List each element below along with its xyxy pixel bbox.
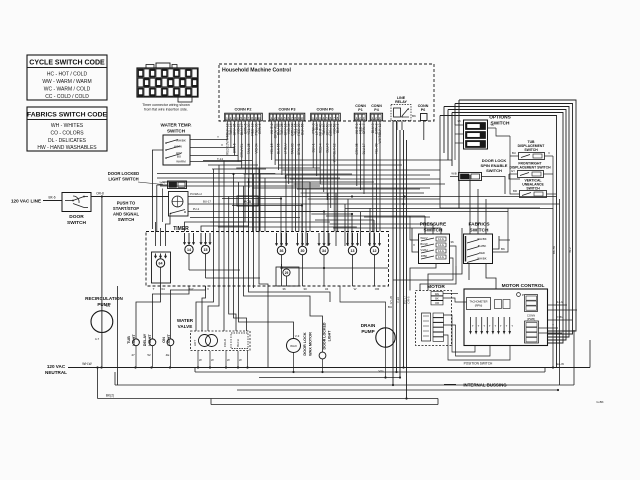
svg-text:G-BK: G-BK [596, 400, 603, 404]
svg-text:BU/BK: BU/BK [478, 244, 487, 248]
svg-text:SWITCH: SWITCH [524, 148, 538, 152]
svg-text:36: 36 [457, 119, 461, 123]
svg-text:WH-W: WH-W [82, 362, 91, 366]
svg-text:TUB: TUB [127, 336, 131, 344]
svg-text:PCB: PCB [244, 200, 252, 204]
timer contact 15 [201, 245, 209, 253]
svg-text:120 VAC LINE: 120 VAC LINE [11, 199, 41, 204]
svg-text:MOTOR: MOTOR [427, 284, 445, 290]
svg-text:2: 2 [274, 116, 276, 120]
svg-text:WARM: WARM [176, 160, 186, 164]
svg-text:9: 9 [255, 116, 257, 120]
timer contact 29 subbox [276, 267, 299, 286]
water temp switch S4 [163, 135, 190, 165]
wire CONN P6 drop [423, 121, 425, 141]
tub displacement switch S6 [519, 153, 545, 160]
svg-text:3: 3 [379, 116, 381, 120]
svg-text:10: 10 [258, 116, 262, 120]
wire bus 398 [98, 398, 439, 400]
svg-text:1: 1 [356, 116, 358, 120]
svg-text:T: T [500, 325, 502, 328]
svg-text:Y-BU: Y-BU [557, 315, 563, 319]
svg-text:TACHOMETER: TACHOMETER [470, 300, 488, 304]
svg-text:PU/WH-2: PU/WH-2 [190, 192, 202, 196]
svg-text:BU/W: BU/W [420, 242, 428, 246]
wire push start right 1 [188, 196, 352, 198]
svg-text:W: W [227, 358, 230, 362]
svg-text:OR: OR [375, 287, 380, 291]
svg-text:29: 29 [285, 271, 289, 275]
svg-text:SWITCH: SWITCH [167, 129, 186, 134]
svg-text:V: V [221, 143, 223, 147]
svg-text:30: 30 [301, 249, 305, 253]
wire neutral bus [68, 367, 590, 369]
svg-text:CONN P3: CONN P3 [279, 108, 296, 112]
wires middle mesh horizontals [236, 167, 320, 169]
svg-text:W/B: W/B [451, 172, 456, 176]
svg-text:4E: 4E [166, 353, 170, 357]
wires motor to motor control [443, 293, 458, 295]
svg-text:AND SIGNAL: AND SIGNAL [113, 212, 139, 217]
svg-text:V-22: V-22 [396, 297, 400, 304]
wire bus right vertical 545 [544, 368, 546, 373]
wire water temp out 4 [190, 161, 242, 163]
fabrics switch code legend box [27, 107, 107, 151]
timer dashed box [146, 232, 389, 287]
wire bus right vertical 438 [437, 399, 439, 405]
svg-text:(RPM): (RPM) [475, 304, 483, 308]
svg-text:T: T [472, 325, 474, 328]
svg-text:P4: P4 [374, 108, 378, 112]
wires options switch right [488, 127, 497, 129]
fabrics switch S11 [464, 234, 493, 264]
svg-text:BU: BU [177, 155, 181, 159]
svg-text:W: W [239, 358, 242, 362]
svg-text:BU: BU [388, 305, 392, 309]
svg-text:CO - COLORS: CO - COLORS [50, 131, 84, 137]
svg-text:DOOR: DOOR [69, 214, 84, 220]
svg-text:RED-13: RED-13 [226, 143, 230, 155]
svg-text:T: T [489, 325, 491, 328]
timer contact 29 [283, 269, 290, 276]
svg-text:10: 10 [300, 116, 304, 120]
vertical unbalance switch S8 [520, 191, 547, 198]
svg-text:NA-W: NA-W [556, 362, 564, 366]
svg-text:OR-8: OR-8 [96, 192, 104, 196]
recirculation pump M1 [91, 311, 113, 333]
svg-text:RED: RED [479, 251, 485, 255]
tub light DS1 [135, 308, 137, 339]
svg-text:WW - WARM / WARM: WW - WARM / WARM [42, 79, 91, 85]
wires pressure switch right [450, 246, 457, 266]
svg-text:14-G: 14-G [438, 249, 444, 253]
svg-text:8: 8 [251, 116, 253, 120]
svg-text:WH: WH [435, 292, 439, 296]
wire 120VAC to door switch [43, 200, 62, 202]
wire water temp left drop [152, 150, 163, 229]
svg-text:4: 4 [323, 116, 325, 120]
svg-text:WH/BK: WH/BK [477, 257, 486, 261]
svg-text:HC - HOT / COLD: HC - HOT / COLD [47, 72, 88, 78]
wire water temp out 1 [190, 139, 227, 141]
svg-text:PUSH TO: PUSH TO [117, 201, 136, 206]
svg-text:15: 15 [204, 248, 208, 252]
water valve V1 [191, 331, 251, 351]
wire bus 377 [259, 377, 400, 379]
svg-text:4: 4 [237, 116, 239, 120]
options switch S5 [464, 120, 488, 149]
svg-text:V: V [207, 287, 209, 291]
svg-text:OR-5: OR-5 [407, 296, 411, 303]
svg-text:3: 3 [319, 116, 321, 120]
svg-text:1: 1 [372, 116, 374, 120]
svg-text:BLCH: BLCH [236, 339, 240, 346]
svg-text:CYCLE SWITCH CODE: CYCLE SWITCH CODE [29, 60, 105, 67]
drain pump M3 [376, 328, 395, 347]
svg-text:2: 2 [375, 116, 377, 120]
svg-text:T: T [495, 325, 497, 328]
svg-text:BK-6: BK-6 [48, 196, 55, 200]
timer contact 64 [156, 259, 164, 267]
svg-text:HOT: HOT [193, 340, 197, 347]
wire left vertical 156 [156, 185, 158, 232]
svg-text:DOOR LOCK: DOOR LOCK [303, 332, 307, 355]
svg-text:BR: BR [513, 189, 517, 193]
timer contact 36 [277, 246, 285, 254]
wires motor control right [539, 327, 559, 329]
svg-text:MOTOR CONTROL: MOTOR CONTROL [502, 283, 545, 289]
wires pressure switch left [410, 216, 419, 240]
svg-text:8: 8 [337, 116, 339, 120]
svg-text:36: 36 [280, 249, 284, 253]
wire bus right vertical 574 [573, 330, 575, 385]
svg-text:W: W [211, 358, 214, 362]
svg-text:3: 3 [363, 116, 365, 120]
wire water temp out 3 [190, 155, 238, 157]
svg-text:RELAY: RELAY [395, 100, 407, 104]
svg-text:Household Machine Control: Household Machine Control [222, 68, 291, 74]
svg-text:34: 34 [322, 249, 326, 253]
svg-text:PU-2: PU-2 [193, 207, 200, 211]
wire door switch out OR-B [91, 196, 169, 198]
svg-text:P: P [522, 293, 524, 297]
svg-text:from flat wire insertion side.: from flat wire insertion side. [144, 108, 188, 112]
svg-text:4: 4 [281, 116, 283, 120]
svg-text:T: T [506, 325, 508, 328]
svg-text:BU-17: BU-17 [203, 200, 211, 204]
svg-text:V-3: V-3 [295, 334, 300, 338]
svg-text:7: 7 [291, 116, 293, 120]
svg-text:W: W [199, 358, 202, 362]
svg-text:WATER: WATER [177, 318, 194, 323]
cycle switch code legend box [27, 55, 107, 100]
timer contact 34 [320, 246, 328, 254]
svg-text:6: 6 [244, 116, 246, 120]
wires displacement loop [510, 136, 511, 194]
wires options switch left [455, 124, 464, 126]
internal bussing legend [444, 384, 456, 386]
svg-text:5: 5 [284, 116, 286, 120]
pressure switch S10 [419, 234, 450, 264]
svg-text:P1: P1 [358, 108, 362, 112]
svg-text:T: T [478, 325, 480, 328]
svg-text:COLD: COLD [223, 338, 227, 347]
svg-text:52: 52 [147, 353, 151, 357]
svg-text:PRESSURE: PRESSURE [420, 222, 447, 228]
svg-text:14: 14 [187, 248, 191, 252]
svg-text:WH/BK: WH/BK [176, 139, 186, 143]
svg-text:120 VAC: 120 VAC [47, 364, 66, 369]
svg-text:T: T [483, 325, 485, 328]
wire push start right 3 [188, 211, 508, 213]
svg-text:2: 2 [359, 116, 361, 120]
svg-text:GY: GY [511, 169, 515, 173]
wire bus left vertical 98 [97, 368, 99, 399]
svg-text:BK(2): BK(2) [106, 394, 114, 398]
push to start switch S3 [169, 192, 189, 217]
wire drain pump feed [340, 286, 386, 310]
svg-text:DL - DELICATES: DL - DELICATES [48, 138, 87, 144]
svg-text:64: 64 [161, 287, 165, 291]
svg-text:5: 5 [240, 116, 242, 120]
svg-text:START/STOP: START/STOP [113, 206, 139, 211]
svg-text:WC - WARM / COLD: WC - WARM / COLD [44, 87, 91, 93]
wires CONN P0 drops [312, 121, 314, 168]
svg-text:BK: BK [435, 296, 439, 300]
wire bus 390 [237, 389, 558, 391]
svg-text:1: 1 [312, 116, 314, 120]
svg-text:WATER TEMP.: WATER TEMP. [161, 123, 192, 128]
svg-text:FABRICS: FABRICS [468, 222, 490, 228]
svg-text:64: 64 [159, 262, 163, 266]
wire bus left vertical 115 [114, 372, 116, 385]
wire bus vertical 195 [194, 368, 196, 373]
svg-text:WH/BK: WH/BK [477, 237, 486, 241]
svg-text:NEUTRAL: NEUTRAL [45, 370, 67, 375]
svg-text:47: 47 [131, 353, 135, 357]
motor control U1 [464, 289, 548, 346]
svg-text:ON: ON [162, 337, 166, 343]
wire bus vertical 211 [210, 399, 212, 405]
timer contact 13 [348, 246, 356, 254]
wire water temp out 2 [190, 147, 235, 149]
svg-text:DOOR LOCKED: DOOR LOCKED [108, 171, 139, 176]
svg-text:OR: OR [435, 301, 439, 305]
pcb box [237, 196, 258, 206]
wire line relay drop [396, 121, 398, 130]
options area outer loop [440, 116, 540, 209]
svg-text:14-G: 14-G [557, 300, 563, 304]
front right displacement switch S7 [518, 171, 544, 178]
svg-text:P/BK: P/BK [421, 254, 428, 258]
svg-text:P6: P6 [421, 108, 425, 112]
svg-text:CC - COLD / COLD: CC - COLD / COLD [45, 94, 89, 100]
svg-text:36: 36 [450, 240, 454, 244]
timer contact 14 [185, 245, 193, 253]
svg-text:CONN P0: CONN P0 [317, 108, 334, 112]
svg-text:V: V [548, 151, 550, 155]
svg-text:SWITCH: SWITCH [118, 217, 135, 222]
svg-text:VALVE: VALVE [178, 324, 193, 329]
svg-text:36: 36 [282, 287, 286, 291]
svg-text:OPTIONS: OPTIONS [489, 115, 511, 121]
svg-text:13: 13 [351, 249, 355, 253]
svg-text:SWITCH: SWITCH [486, 168, 502, 173]
svg-text:8: 8 [294, 116, 296, 120]
wires water valve terminals [197, 351, 199, 368]
svg-text:SWITCH: SWITCH [424, 228, 443, 234]
wires fabrics switch right [493, 240, 511, 249]
door lock spin enable switch S9 [459, 173, 482, 181]
wires CONN P2 drops [226, 121, 228, 140]
svg-text:DOOR LOCKED: DOOR LOCKED [323, 322, 327, 349]
wires CONN P3 drops [271, 121, 273, 160]
svg-text:DRAIN: DRAIN [361, 323, 376, 328]
timer connector block icon [137, 68, 198, 97]
svg-text:V/WH: V/WH [420, 248, 427, 252]
on light DS3 [169, 295, 171, 339]
svg-text:34: 34 [325, 287, 329, 291]
svg-text:6-4: 6-4 [106, 304, 111, 308]
wire left vertical 162 [162, 189, 164, 223]
wire door switch down branch [101, 195, 103, 197]
wires mesh vertical drops to timer and switches [280, 199, 282, 247]
timer subbox contact 64 [152, 252, 171, 283]
wire bus 385 [115, 384, 574, 386]
svg-text:BK: BK [412, 114, 416, 118]
wires stairs to water valve [196, 169, 214, 331]
wire pump down [101, 332, 103, 367]
household machine control dashed box [219, 64, 434, 121]
svg-text:WAX: WAX [290, 344, 297, 348]
svg-text:(PWB): (PWB) [527, 317, 535, 321]
svg-text:PUMP: PUMP [361, 329, 374, 334]
wire push start right 2 [188, 203, 560, 205]
svg-text:CONN P2: CONN P2 [235, 108, 252, 112]
wires HMC to right risers [459, 100, 576, 331]
wires CONN P4 drops [372, 121, 374, 232]
svg-text:Y: Y [217, 135, 219, 139]
svg-text:SWITCH: SWITCH [526, 187, 540, 191]
svg-text:SWITCH: SWITCH [67, 220, 86, 226]
wire bus 372 [195, 371, 545, 373]
svg-text:BU: BU [512, 151, 516, 155]
svg-text:DISPLACEMENT SWITCH: DISPLACEMENT SWITCH [509, 166, 551, 170]
door lock wax motor M2 [287, 339, 301, 353]
door switch S1 [62, 193, 91, 212]
svg-text:LIGHT: LIGHT [328, 330, 332, 342]
timer contact 12 [370, 246, 378, 254]
svg-text:3: 3 [233, 116, 235, 120]
svg-text:WH: WH [160, 181, 165, 185]
wire bus right vertical 590 [589, 340, 591, 368]
wires right risers bottom [552, 208, 554, 368]
svg-text:BK: BK [501, 247, 505, 251]
timer contact 30 [298, 246, 306, 254]
svg-text:14-G: 14-G [438, 237, 444, 241]
svg-text:2: 2 [316, 116, 318, 120]
wires center risers [392, 121, 394, 385]
wires CONN P1 drops [356, 121, 358, 186]
svg-text:5: 5 [326, 116, 328, 120]
door locked light DS4 [319, 352, 326, 359]
svg-text:14-G: 14-G [438, 243, 444, 247]
svg-text:T: T [153, 287, 155, 291]
svg-text:1: 1 [226, 116, 228, 120]
wires pressure fabrics to motor area [420, 266, 456, 291]
svg-text:GY-35: GY-35 [389, 295, 393, 304]
svg-text:6: 6 [288, 116, 290, 120]
svg-text:INTERNAL BUSSING: INTERNAL BUSSING [463, 383, 507, 388]
door locked light switch S2 [168, 181, 187, 189]
timer internal bus [160, 267, 162, 286]
svg-text:WAX MOTOR: WAX MOTOR [309, 332, 313, 356]
delay light DS2 [151, 300, 153, 339]
svg-text:WH - WHITES: WH - WHITES [51, 123, 84, 129]
svg-text:1: 1 [271, 116, 273, 120]
svg-text:14-G: 14-G [438, 255, 444, 259]
svg-text:POSITION SWITCH: POSITION SWITCH [464, 362, 493, 366]
svg-text:7: 7 [248, 116, 250, 120]
svg-text:3: 3 [277, 116, 279, 120]
svg-text:7: 7 [333, 116, 335, 120]
svg-text:WH/V: WH/V [420, 236, 427, 240]
svg-text:V: V [413, 243, 415, 247]
svg-text:4-7: 4-7 [95, 337, 100, 341]
wires lights feeds [136, 286, 161, 308]
svg-text:W: W [354, 287, 357, 291]
wire bus 405 [211, 404, 438, 406]
svg-text:T: T [511, 325, 513, 328]
svg-text:DELAY: DELAY [143, 333, 147, 346]
svg-text:HW - HAND WASHABLES: HW - HAND WASHABLES [37, 145, 97, 151]
svg-text:2: 2 [230, 116, 232, 120]
svg-text:Y6: Y6 [490, 123, 494, 127]
svg-text:Y: Y [552, 323, 554, 327]
svg-text:LIGHT SWITCH: LIGHT SWITCH [108, 177, 138, 182]
motor M4 [416, 291, 452, 346]
svg-text:SWITCH: SWITCH [470, 228, 489, 234]
svg-text:FABRICS SWITCH CODE: FABRICS SWITCH CODE [27, 112, 108, 119]
svg-text:6: 6 [330, 116, 332, 120]
svg-text:30: 30 [303, 287, 307, 291]
svg-text:12: 12 [373, 249, 377, 253]
svg-text:Timer connector wiring shown: Timer connector wiring shown [142, 103, 190, 107]
